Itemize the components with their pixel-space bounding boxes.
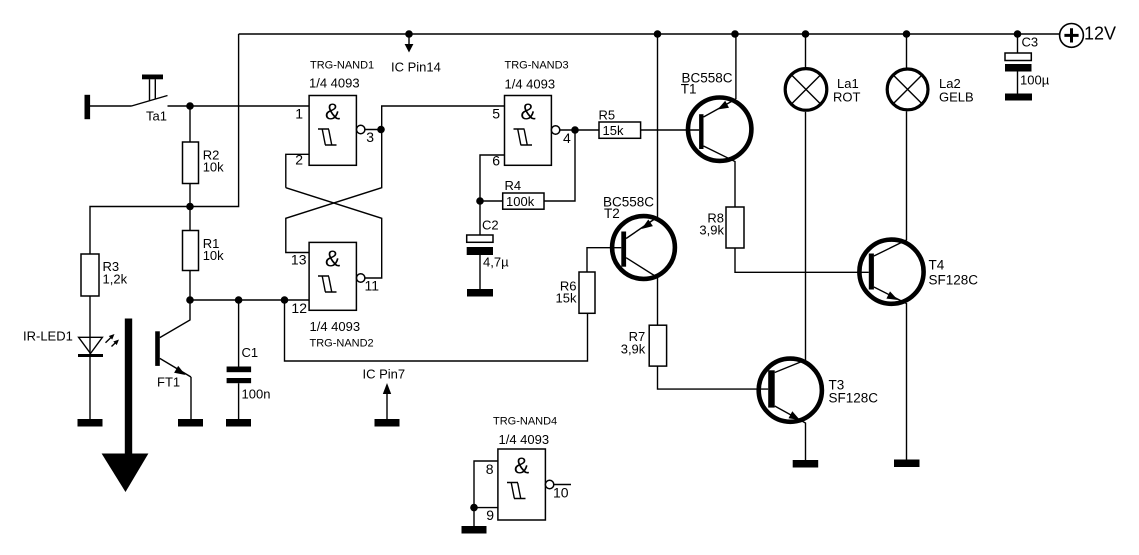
svg-text:15k: 15k: [603, 123, 624, 138]
node junction pin12 branch: [281, 296, 289, 304]
wire rail to T1 emitter: [735, 34, 737, 99]
svg-text:&: &: [514, 453, 529, 479]
svg-text:TRG-NAND2: TRG-NAND2: [310, 338, 374, 350]
supply +12V symbol: [1060, 24, 1084, 48]
node junction rail/C3: [1014, 30, 1022, 38]
wire La1 to T3 collector: [805, 112, 807, 360]
resistor R2: [183, 142, 199, 184]
lamp La2: [887, 69, 928, 110]
capacitor C2: [467, 235, 493, 289]
wire R1 bottom: [189, 271, 191, 301]
node junction rail/La1: [802, 30, 810, 38]
node junction R4/C2: [476, 197, 484, 205]
svg-text:C3: C3: [1022, 35, 1039, 50]
svg-text:1/4 4093: 1/4 4093: [310, 319, 361, 334]
svg-text:8: 8: [486, 461, 494, 477]
svg-text:TRG-NAND3: TRG-NAND3: [505, 60, 569, 72]
node junction NAND1 out: [377, 126, 385, 134]
resistor R6: [579, 272, 595, 313]
svg-text:15k: 15k: [556, 291, 577, 306]
nand gate U1C TRG-NAND4: [498, 449, 554, 520]
node junction rail/T2 emitter: [654, 30, 662, 38]
svg-text:SF128C: SF128C: [829, 391, 879, 406]
wire C1 to ground: [238, 383, 240, 419]
resistor R5: [599, 122, 641, 138]
wire R7 to T3 base: [658, 366, 769, 389]
node junction Ta1/R2: [186, 102, 194, 110]
svg-text:3,9k: 3,9k: [621, 342, 646, 357]
svg-text:SF128C: SF128C: [929, 273, 979, 288]
ground under C2: [467, 289, 493, 297]
node junction rail/La2: [903, 30, 911, 38]
beam arrow: [102, 319, 149, 493]
wire R6 to T2 base: [587, 248, 621, 272]
transistor T1 BC558C: [688, 98, 751, 208]
wire node row to NAND2 pin12: [190, 299, 309, 301]
wire to C1: [238, 300, 240, 367]
wire NAND1 pin2 feedback: [286, 154, 309, 187]
svg-text:IC Pin7: IC Pin7: [363, 367, 406, 382]
wire pin12 node to R6 bottom: [285, 300, 588, 361]
wire to R2: [189, 106, 191, 142]
svg-text:12: 12: [291, 300, 307, 316]
svg-text:100n: 100n: [242, 387, 271, 402]
wire NAND4 inputs tied: [474, 461, 498, 526]
resistor R4: [503, 193, 544, 209]
IC Pin14 marker: [405, 30, 414, 52]
node junction R1/FT1: [186, 296, 194, 304]
svg-text:IR-LED1: IR-LED1: [23, 329, 73, 344]
svg-text:FT1: FT1: [157, 375, 180, 390]
resistor R3: [81, 254, 99, 296]
svg-text:T1: T1: [681, 82, 697, 97]
svg-text:1/4 4093: 1/4 4093: [309, 76, 360, 91]
svg-text:&: &: [520, 99, 535, 125]
transistor T4 SF128C: [859, 240, 923, 460]
wire NAND1 out up to NAND3 pin5: [382, 106, 505, 130]
wire NAND4 output stub: [554, 484, 571, 486]
nand gate U1D TRG-NAND2: [309, 242, 365, 310]
svg-text:3: 3: [366, 129, 374, 145]
nand gate U1A TRG-NAND1: [309, 96, 365, 166]
svg-text:T2: T2: [604, 206, 620, 221]
resistor R7: [649, 325, 666, 366]
svg-text:1/4 4093: 1/4 4093: [505, 76, 556, 91]
svg-text:11: 11: [365, 278, 380, 294]
ground under FT1: [178, 419, 203, 427]
wire FT1 emitter to ground: [190, 377, 192, 419]
nand gate U1B TRG-NAND3: [505, 96, 560, 166]
svg-text:ROT: ROT: [833, 90, 861, 105]
wire NAND1 output: [365, 129, 382, 131]
LED IR-LED1: [78, 334, 119, 357]
resistor R1: [183, 231, 199, 271]
svg-text:1,2k: 1,2k: [103, 272, 128, 287]
wire NAND3 output: [560, 129, 599, 131]
wire R2 bottom: [189, 184, 191, 207]
wire LED to ground: [89, 357, 91, 419]
wire cross coupling A: [286, 188, 382, 278]
wire node to R1: [189, 207, 191, 231]
svg-text:12V: 12V: [1084, 24, 1116, 44]
IC Pin7 marker: [375, 383, 400, 427]
svg-text:9: 9: [486, 507, 494, 523]
svg-text:IC Pin14: IC Pin14: [391, 60, 441, 75]
node junction rail/T1 emitter: [731, 30, 739, 38]
svg-text:4: 4: [563, 130, 571, 146]
svg-text:100µ: 100µ: [1020, 73, 1050, 88]
phototransistor FT1: [155, 300, 191, 377]
svg-text:3,9k: 3,9k: [699, 223, 724, 238]
wire +12V top rail: [239, 33, 1060, 35]
wire rail drop to R2/R1 node: [190, 34, 239, 207]
wire R5 to T1 base: [641, 129, 700, 131]
svg-text:C1: C1: [242, 345, 259, 360]
svg-text:4,7µ: 4,7µ: [483, 255, 509, 270]
node junction C1 tap: [235, 296, 243, 304]
wire R3 to LED: [89, 296, 91, 357]
terminal input stub: [85, 95, 91, 119]
capacitor C3: [1005, 34, 1032, 101]
svg-text:R5: R5: [599, 108, 616, 123]
svg-text:C2: C2: [482, 218, 499, 233]
node junction NAND3 out: [571, 126, 579, 134]
svg-text:100k: 100k: [506, 194, 535, 209]
node junction NAND4 pins: [470, 504, 478, 512]
svg-text:&: &: [325, 246, 340, 272]
resistor R8: [726, 207, 744, 248]
svg-text:13: 13: [291, 252, 307, 268]
wire C2 node to R4: [480, 200, 503, 202]
svg-text:10k: 10k: [203, 160, 224, 175]
pushbutton Ta1: [132, 75, 168, 107]
node junction R2/R1: [186, 203, 194, 211]
capacitor C1: [227, 367, 252, 384]
ground under C1: [226, 419, 251, 427]
svg-text:5: 5: [492, 105, 500, 121]
wire NAND3 pin6 to C2 node: [480, 155, 505, 235]
ground under T3: [793, 460, 819, 468]
svg-text:1: 1: [295, 105, 303, 121]
wire rail to La2: [906, 34, 908, 68]
svg-text:Ta1: Ta1: [146, 109, 167, 124]
wire La2 to T4 collector: [874, 111, 907, 256]
ground under IR-LED1: [78, 419, 103, 427]
wire switch to NAND1 pin1: [168, 105, 310, 107]
svg-text:10k: 10k: [203, 248, 224, 263]
wire rail to La1: [805, 34, 807, 67]
svg-text:TRG-NAND4: TRG-NAND4: [493, 416, 557, 428]
svg-text:TRG-NAND1: TRG-NAND1: [310, 60, 374, 72]
ground under NAND4: [462, 526, 487, 534]
wire R8 to T4 base: [735, 248, 869, 272]
svg-text:1/4 4093: 1/4 4093: [499, 432, 550, 447]
wire R4 to NAND3 out: [544, 130, 575, 201]
svg-text:GELB: GELB: [939, 90, 974, 105]
svg-text:10: 10: [553, 485, 569, 501]
svg-text:&: &: [325, 99, 340, 125]
wire node to R3 branch: [90, 207, 190, 255]
ground under T4: [894, 460, 920, 468]
wire cross coupling B: [286, 130, 382, 253]
wire rail to T2 emitter: [657, 34, 659, 217]
svg-text:T4: T4: [929, 258, 945, 273]
wire terminal to switch: [90, 105, 132, 107]
transistor T2 BC558C: [612, 216, 675, 325]
svg-text:R4: R4: [505, 178, 522, 193]
lamp La1: [785, 69, 827, 111]
transistor T3 SF128C: [759, 359, 822, 460]
